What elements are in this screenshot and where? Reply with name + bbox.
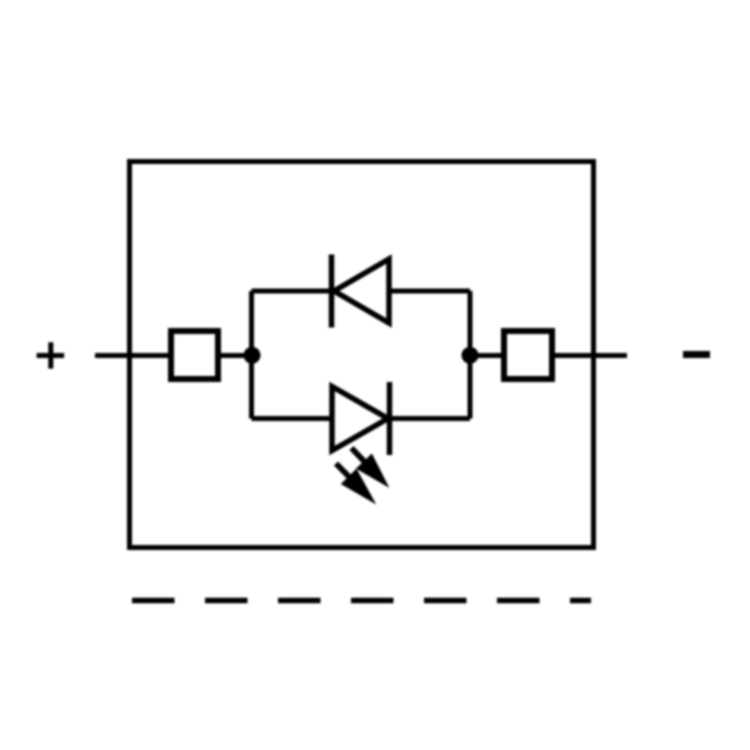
wire branch right vertical: [468, 291, 473, 419]
LED D2 bottom (points right): [332, 382, 390, 455]
wire bottom branch: [252, 416, 471, 421]
wire left lead: [95, 353, 171, 358]
wire right node to clamp: [470, 353, 504, 358]
LED light arrow 1: [344, 440, 398, 495]
plus terminal label: [37, 342, 65, 368]
DIN rail dashed line: [132, 598, 591, 604]
diode D1 top (points left): [332, 255, 390, 328]
node left junction: [244, 347, 261, 364]
terminal clamp left: [171, 331, 218, 379]
wire branch left vertical: [249, 291, 254, 419]
node right junction: [462, 347, 479, 364]
module outline: [130, 162, 594, 548]
wire clamp to left node: [218, 353, 253, 358]
LED light arrow 2: [328, 456, 384, 512]
minus terminal label: [683, 351, 710, 358]
terminal clamp right: [504, 331, 552, 379]
wire right lead: [552, 353, 627, 358]
wire top branch: [252, 289, 471, 294]
